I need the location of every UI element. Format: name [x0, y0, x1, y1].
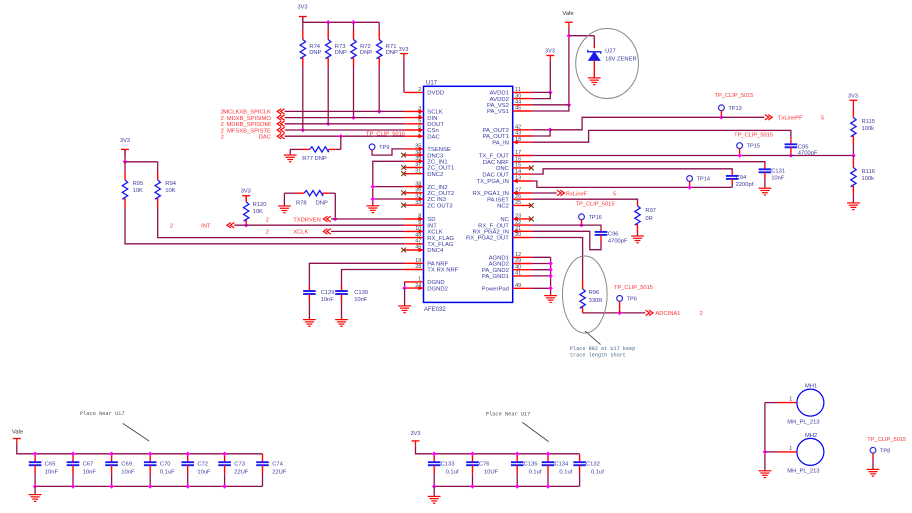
ground (MH) [759, 471, 772, 478]
svg-text:C135: C135 [524, 462, 538, 468]
svg-text:DIN: DIN [427, 116, 437, 122]
svg-text:RX_PGA2_IN: RX_PGA2_IN [473, 230, 509, 236]
pin 34 DNC3 [404, 154, 423, 156]
junction C95/TX_F_OUT [789, 153, 794, 158]
power 3V3 (R115) [849, 100, 857, 105]
svg-text:C96: C96 [608, 231, 619, 237]
wire DAC to R77 [340, 136, 342, 149]
svg-text:TP_CLIP_5015: TP_CLIP_5015 [734, 133, 773, 139]
wire R71 to bus [378, 67, 380, 112]
ground (zener) [588, 78, 601, 85]
power 3V3 (AVDD) [546, 56, 554, 61]
svg-text:2: 2 [700, 311, 703, 317]
capacitor C70 0.1uF [149, 454, 151, 462]
junction DGND2 [402, 286, 407, 291]
junction C65 top [33, 452, 38, 457]
svg-text:9: 9 [418, 220, 421, 226]
wire AVDD2 [532, 92, 550, 98]
svg-text:18V ZENER: 18V ZENER [605, 56, 637, 62]
testpoint TP9 [369, 144, 375, 150]
pin 23 NC [513, 218, 532, 220]
svg-text:1: 1 [418, 277, 421, 283]
pin 37 ZC_OUT1 [404, 167, 423, 169]
svg-text:C69: C69 [121, 462, 132, 468]
svg-text:31: 31 [415, 168, 421, 174]
svg-text:R120: R120 [253, 202, 267, 208]
resistor R77 DNP [329, 148, 336, 150]
junction PA_OUT2 [548, 128, 553, 133]
svg-text:23: 23 [515, 214, 521, 220]
svg-text:47: 47 [415, 239, 421, 245]
pin 35 TSENSE [404, 148, 423, 150]
pin 44 PA_VS2 [513, 104, 532, 106]
svg-text:PowerPad: PowerPad [482, 287, 509, 293]
svg-text:TX_PGA_IN: TX_PGA_IN [476, 179, 508, 185]
pin 27 RX_PGA1_IN [513, 192, 532, 194]
wire TP6 stub [619, 301, 621, 313]
svg-text:10uF: 10uF [197, 469, 211, 475]
svg-text:28: 28 [415, 264, 421, 270]
junction R120/INT [244, 223, 249, 228]
svg-text:TP8: TP8 [880, 448, 890, 454]
junction C69 top [109, 452, 114, 457]
capacitor C129 10nF [308, 285, 310, 291]
svg-text:42: 42 [515, 125, 521, 131]
note pointer line (R96) [585, 331, 601, 345]
svg-text:8: 8 [418, 214, 421, 220]
svg-text:C67: C67 [83, 462, 94, 468]
wire MDXB_SPISIMO [285, 117, 405, 119]
wire zener branch [569, 35, 594, 37]
junction C134 bottom [546, 484, 551, 489]
wire 3V3 to R95 [124, 149, 126, 161]
wire RX_PGA2_OUT to R96 [532, 238, 583, 281]
svg-text:C132: C132 [586, 462, 600, 468]
capacitor C95 4700pF [790, 139, 792, 144]
svg-text:C94: C94 [736, 175, 747, 181]
svg-text:25: 25 [515, 200, 521, 206]
junction R78/TXDRVEN [333, 217, 338, 222]
wire R116 to ground [852, 195, 854, 203]
svg-text:32: 32 [415, 194, 421, 200]
svg-text:U27: U27 [605, 49, 616, 55]
pin 26 PA ISET [513, 198, 532, 200]
wire R77 to ground [290, 148, 302, 150]
svg-text:C134: C134 [554, 462, 569, 468]
svg-text:TP13: TP13 [728, 106, 741, 112]
svg-text:Place R92 at U17 keep: Place R92 at U17 keep [570, 346, 635, 352]
svg-text:22: 22 [515, 220, 521, 226]
svg-text:DAC: DAC [427, 134, 440, 140]
junction on top bus at R72 [351, 20, 356, 25]
power 3V3 (R120) [242, 196, 250, 201]
wire R94 to RX_FLAG [158, 207, 405, 237]
svg-text:17: 17 [515, 150, 521, 156]
testpoint TP6 [617, 296, 623, 302]
svg-text:C129: C129 [321, 290, 335, 296]
svg-text:39: 39 [415, 156, 421, 162]
svg-text:ZC_IN1: ZC_IN1 [427, 160, 447, 166]
svg-text:XCLK: XCLK [293, 230, 308, 236]
svg-text:DNC2: DNC2 [427, 172, 443, 178]
svg-text:RX_F_OUT: RX_F_OUT [478, 223, 509, 229]
wire 3V3 rail bottom [434, 485, 579, 487]
svg-text:2: 2 [221, 116, 224, 122]
note pointer line (3V3 row) [522, 422, 549, 442]
svg-text:TXDRVEN: TXDRVEN [293, 217, 321, 223]
svg-text:MH_PL_213: MH_PL_213 [787, 469, 819, 475]
svg-text:RxLineF: RxLineF [566, 191, 588, 197]
junction TP15 [737, 153, 742, 158]
pin 28 TX RX NRF [404, 269, 423, 271]
pin 11 AVDD1 [513, 91, 532, 93]
wire DAC NRF to C131 [532, 162, 765, 165]
junction AGND2 [548, 261, 553, 266]
svg-text:ADCINA1: ADCINA1 [655, 311, 680, 317]
resistor R96 330R [582, 280, 584, 289]
svg-text:C76: C76 [479, 462, 490, 468]
svg-text:C73: C73 [234, 462, 245, 468]
zener diode U27 18V ZENER [593, 44, 595, 48]
junction C73 top [222, 452, 227, 457]
wire DAC OUT to C94 [532, 169, 732, 174]
pin 43 PA_OUT1 [513, 135, 532, 137]
wire R72 to bus [353, 67, 355, 118]
resistor R95 10K [124, 162, 126, 171]
svg-text:4700pF: 4700pF [608, 238, 628, 244]
svg-text:C74: C74 [272, 462, 283, 468]
svg-text:AVDD1: AVDD1 [490, 91, 509, 97]
pin 39 ZC_IN1 [404, 160, 423, 162]
svg-text:DAC NRF: DAC NRF [483, 160, 510, 166]
junction PA_VS2 [567, 103, 572, 108]
pin 7 DAC [404, 135, 423, 137]
svg-text:0.1uf: 0.1uf [446, 469, 459, 475]
svg-text:PA_OUT2: PA_OUT2 [482, 128, 508, 134]
junction C72 top [185, 452, 190, 457]
resistor R73 DNP [327, 22, 329, 30]
svg-text:10K: 10K [133, 188, 143, 194]
svg-text:R77 DNP: R77 DNP [302, 156, 327, 162]
svg-text:DOUT: DOUT [427, 122, 444, 128]
wire TP8 stub [872, 453, 874, 458]
svg-text:CSn: CSn [427, 128, 438, 134]
svg-text:TP14: TP14 [697, 177, 710, 183]
svg-text:TX RX NRF: TX RX NRF [427, 268, 458, 274]
power 3V3 (decoupling row) [412, 441, 420, 446]
svg-text:PA_GND2: PA_GND2 [482, 268, 509, 274]
junction TP6 [617, 311, 622, 316]
power Vafe (decoupling row) [13, 439, 21, 444]
resistor R115 100k [852, 106, 854, 109]
mounting hole MH1 MH_PL_213 [797, 389, 824, 416]
capacitor C132 0.1uf [579, 454, 581, 462]
pin 2 DVDD [404, 91, 423, 93]
pin 10 XCLK [404, 230, 423, 232]
svg-text:XCLK: XCLK [427, 230, 442, 236]
wire 3V3 to AVDD1/AVDD2 [549, 61, 551, 93]
wire TP15 stub [739, 149, 741, 156]
ground (ZC rail) [366, 206, 379, 213]
svg-text:Vafe: Vafe [563, 11, 574, 17]
wire TP16 stub [581, 220, 583, 225]
resistor R74 DNP [302, 22, 304, 30]
svg-text:46: 46 [415, 245, 421, 251]
svg-text:trace length short: trace length short [570, 352, 626, 358]
svg-text:Place Near U17: Place Near U17 [80, 411, 125, 417]
pin 47 TX_FLAG [404, 243, 423, 245]
wire TX RX NRF to C130 [342, 270, 405, 286]
pin 9 INT [404, 224, 423, 226]
wire MFSXB_SPISTE [285, 129, 405, 131]
ground (3V3 row) [428, 496, 441, 503]
svg-text:DNP: DNP [316, 201, 328, 207]
resistor R78 DNP [284, 192, 296, 194]
svg-text:ZC_OUT1: ZC_OUT1 [427, 166, 454, 172]
wire to ground (Vafe row) [34, 486, 36, 494]
svg-text:TP6: TP6 [627, 297, 637, 303]
svg-text:DNC3: DNC3 [427, 153, 444, 159]
svg-text:MH1: MH1 [805, 384, 817, 390]
svg-text:RX_FLAG: RX_FLAG [427, 236, 454, 242]
IC U17 AFE032 body [424, 86, 513, 302]
resistor R72 DNP [353, 22, 355, 30]
svg-text:45: 45 [515, 106, 521, 112]
pin 17 TX_F_OUT [513, 155, 532, 157]
wire MCLKXB_SPICLK [285, 110, 405, 112]
wire 3V3 to DVDD [403, 59, 405, 92]
junction ZC_IN2 [371, 184, 376, 189]
wire C131 to ground [764, 178, 766, 188]
ellipse around U27 [576, 29, 639, 99]
svg-text:PA ISET: PA ISET [487, 197, 509, 203]
svg-text:38: 38 [415, 181, 421, 187]
svg-text:6: 6 [418, 125, 421, 131]
wire 3V3 top bus [302, 17, 304, 23]
testpoint TP15 [737, 143, 743, 149]
wire TP13 stub [720, 111, 722, 118]
wire R96 to ADCINA1 [583, 312, 646, 314]
wire ZC_IN1 [373, 161, 404, 206]
svg-text:3V3: 3V3 [399, 47, 409, 53]
svg-text:DVDD: DVDD [427, 91, 444, 97]
junction R72 [351, 115, 356, 120]
svg-text:10K: 10K [253, 209, 263, 215]
svg-text:RX_PGA1_IN: RX_PGA1_IN [473, 191, 509, 197]
svg-text:TP_CLIP_5015: TP_CLIP_5015 [614, 285, 653, 291]
svg-text:R78: R78 [296, 201, 307, 207]
svg-text:3V3: 3V3 [298, 5, 308, 11]
pin 19 PA NRF [404, 262, 423, 264]
junction C70 bottom [148, 484, 153, 489]
svg-text:R74: R74 [309, 44, 320, 50]
svg-text:2: 2 [418, 87, 421, 93]
svg-text:AGND1: AGND1 [489, 256, 509, 262]
junction PowerPad [548, 286, 553, 291]
svg-text:PA_IN: PA_IN [492, 140, 509, 146]
svg-text:3V3: 3V3 [848, 94, 858, 100]
power 3V3 (DVDD) [400, 54, 408, 59]
resistor R71 DNP [378, 22, 380, 30]
pin 5 DOUT [404, 123, 423, 125]
svg-text:PA NRF: PA NRF [427, 262, 448, 268]
svg-text:C131: C131 [771, 168, 785, 174]
svg-text:TP_CLIP_5015: TP_CLIP_5015 [366, 131, 405, 137]
svg-text:INT: INT [201, 223, 211, 229]
svg-text:10nF: 10nF [354, 297, 368, 303]
junction AVDD1 [548, 90, 553, 95]
capacitor C73 22UF [224, 454, 226, 462]
wire MDRB_SPISOMI [285, 123, 405, 125]
junction C73 bottom [222, 484, 227, 489]
svg-text:2: 2 [221, 135, 224, 141]
svg-text:22UF: 22UF [234, 469, 249, 475]
svg-text:SCLK: SCLK [427, 110, 442, 116]
wire R78 to ground [283, 193, 285, 206]
svg-text:5: 5 [613, 191, 616, 197]
svg-text:0.1uF: 0.1uF [160, 469, 175, 475]
ground (R78) [278, 206, 291, 213]
net label ADCINA1 [646, 310, 653, 315]
pin 18 PA_IN [513, 141, 532, 143]
svg-text:5: 5 [821, 116, 824, 122]
capacitor C67 10nF [72, 454, 74, 462]
junction on top bus at R73 [326, 20, 331, 25]
wire PA_VS2 [532, 104, 569, 106]
pin 3 SCLK [404, 110, 423, 112]
wire 3V3 rail top [416, 446, 580, 454]
pin 1 DGND [404, 281, 423, 283]
ground (R77) [284, 155, 297, 162]
svg-text:14: 14 [515, 169, 521, 175]
svg-text:41: 41 [515, 271, 521, 277]
pin 38 ZC_IN2 [404, 186, 423, 188]
wire PA ISET to R97 [532, 199, 638, 201]
svg-text:10nF: 10nF [121, 469, 135, 475]
svg-text:ZC IN3: ZC IN3 [427, 197, 446, 203]
svg-text:R97: R97 [645, 208, 656, 214]
capacitor C76 10UF [472, 454, 474, 462]
svg-text:40: 40 [515, 264, 521, 270]
svg-text:0.1uf: 0.1uf [529, 469, 542, 475]
svg-text:2: 2 [221, 128, 224, 134]
svg-text:2: 2 [266, 230, 269, 236]
svg-text:5: 5 [418, 119, 421, 125]
svg-text:R115: R115 [862, 119, 875, 125]
wire C130 to ground [341, 302, 343, 320]
capacitor C74 22UF [262, 454, 264, 462]
svg-text:DNP: DNP [309, 50, 321, 56]
ground (TP8) [867, 469, 880, 476]
svg-text:PA_OUT1: PA_OUT1 [482, 134, 508, 140]
svg-text:27: 27 [515, 188, 521, 194]
pin 32 ZC IN3 [404, 198, 423, 200]
ground (R116) [847, 203, 860, 210]
svg-text:20: 20 [515, 232, 521, 238]
svg-text:3V3: 3V3 [545, 49, 555, 55]
resistor R116 100k [852, 156, 854, 159]
svg-text:10: 10 [415, 226, 421, 232]
svg-text:DGND: DGND [427, 280, 444, 286]
svg-text:ZC_OUT2: ZC_OUT2 [427, 191, 454, 197]
svg-text:C130: C130 [354, 290, 368, 296]
svg-text:11: 11 [515, 87, 521, 93]
svg-text:Place Near U17: Place Near U17 [486, 412, 531, 418]
svg-text:MCLKXB_SPICLK: MCLKXB_SPICLK [223, 110, 271, 116]
svg-text:R73: R73 [335, 44, 346, 50]
wire C129 to ground [308, 302, 310, 320]
junction C76 top [470, 452, 475, 457]
svg-text:C95: C95 [798, 144, 809, 150]
junction MH2 [763, 450, 768, 455]
wire Vafe rail top [17, 444, 263, 454]
junction DAC/R77 [339, 134, 344, 139]
svg-text:MH2: MH2 [805, 433, 817, 439]
capacitor C130 10nF [341, 285, 343, 291]
pin 4 DIN [404, 117, 423, 119]
pin 41 PA_GND1 [513, 275, 532, 277]
junction R71 [377, 109, 382, 114]
svg-text:C133: C133 [441, 462, 455, 468]
wire R78 to TXDRVEN [334, 193, 336, 219]
capacitor C134 0.1uf [547, 454, 549, 462]
wire MH1 pin [778, 402, 797, 404]
svg-text:MFSXB_SPISTE: MFSXB_SPISTE [227, 128, 271, 134]
svg-text:100k: 100k [862, 176, 875, 182]
svg-text:2: 2 [170, 223, 173, 229]
wire R95/R94 link [125, 161, 158, 163]
wire PA_VS1 [532, 105, 569, 111]
wire TxLinePF [721, 116, 764, 118]
svg-text:33: 33 [415, 200, 421, 206]
ground (DGND) [398, 306, 411, 313]
svg-text:19: 19 [415, 258, 421, 264]
wire to ground (3V3 row) [433, 486, 435, 496]
wire PA_IN to C95 [532, 130, 791, 142]
pin 29 AGND2 [513, 263, 532, 265]
wire MH2 pin [778, 451, 797, 453]
wire R74 to bus [302, 67, 304, 130]
svg-text:21: 21 [515, 226, 521, 232]
svg-text:34: 34 [415, 150, 421, 156]
power Vafe [565, 22, 573, 27]
mounting hole MH2 MH_PL_213 [797, 438, 824, 465]
svg-text:AGND2: AGND2 [489, 262, 509, 268]
wire MH rail [764, 403, 766, 471]
capacitor C69 10nF [111, 454, 113, 462]
svg-text:18: 18 [515, 137, 521, 143]
pin 8 SD [404, 218, 423, 220]
resistor R120 10K [245, 196, 247, 202]
svg-text:TP_CLIP_5015: TP_CLIP_5015 [576, 201, 615, 207]
pin 21 RX_PGA2_IN [513, 230, 532, 232]
capacitor C94 2200pf [731, 171, 733, 176]
wire XCLK [331, 230, 404, 232]
junction C72 bottom [185, 484, 190, 489]
resistor R94 10K [157, 162, 159, 171]
pin 48 RX_FLAG [404, 237, 423, 239]
junction Vafe/zener [567, 33, 572, 38]
wire R115 to junction [852, 145, 854, 156]
svg-text:330R: 330R [589, 298, 603, 304]
svg-text:PA_GND1: PA_GND1 [482, 274, 509, 280]
wire TXDRVEN [331, 218, 404, 220]
svg-text:13: 13 [515, 176, 521, 182]
junction C67 top [71, 452, 76, 457]
svg-text:TP16: TP16 [589, 215, 602, 221]
svg-text:RX_PGA2_OUT: RX_PGA2_OUT [466, 236, 509, 242]
wire ZC_IN2 [373, 186, 404, 188]
